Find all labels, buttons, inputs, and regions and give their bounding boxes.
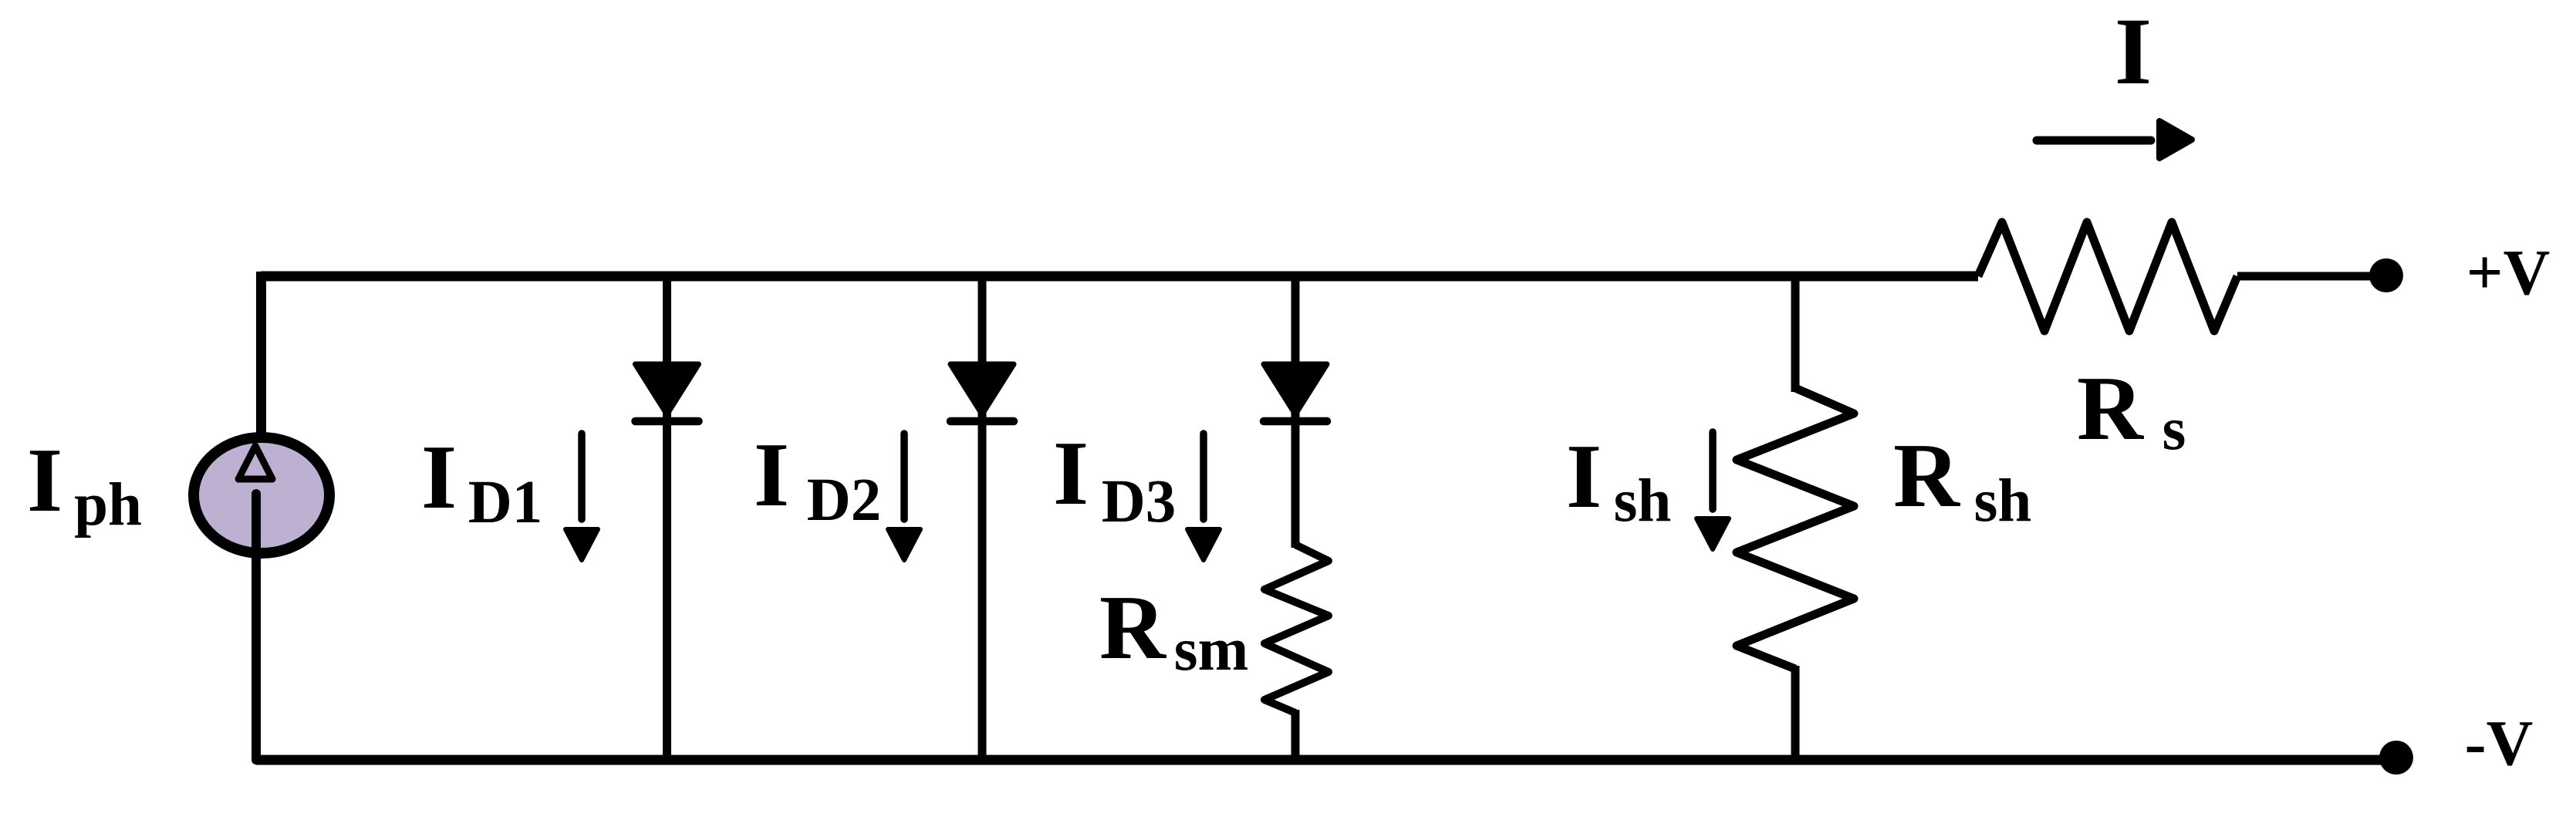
svg-text:sh: sh (1974, 468, 2032, 535)
svg-text:R: R (2077, 357, 2144, 459)
svg-text:sm: sm (1174, 616, 1249, 684)
svg-text:ph: ph (74, 471, 142, 538)
svg-text:I: I (2115, 0, 2152, 104)
svg-text:-V: -V (2465, 707, 2534, 779)
svg-text:sh: sh (1614, 468, 1672, 535)
svg-text:+V: +V (2466, 237, 2551, 309)
svg-text:s: s (2162, 396, 2186, 463)
svg-text:D1: D1 (468, 469, 543, 536)
svg-text:I: I (421, 426, 457, 528)
svg-text:I: I (27, 429, 62, 531)
svg-text:I: I (754, 424, 789, 525)
svg-text:R: R (1099, 576, 1166, 678)
svg-text:D3: D3 (1102, 468, 1177, 535)
svg-text:I: I (1566, 425, 1602, 527)
svg-text:R: R (1893, 424, 1960, 526)
svg-text:D2: D2 (807, 467, 882, 534)
svg-text:I: I (1053, 422, 1089, 524)
